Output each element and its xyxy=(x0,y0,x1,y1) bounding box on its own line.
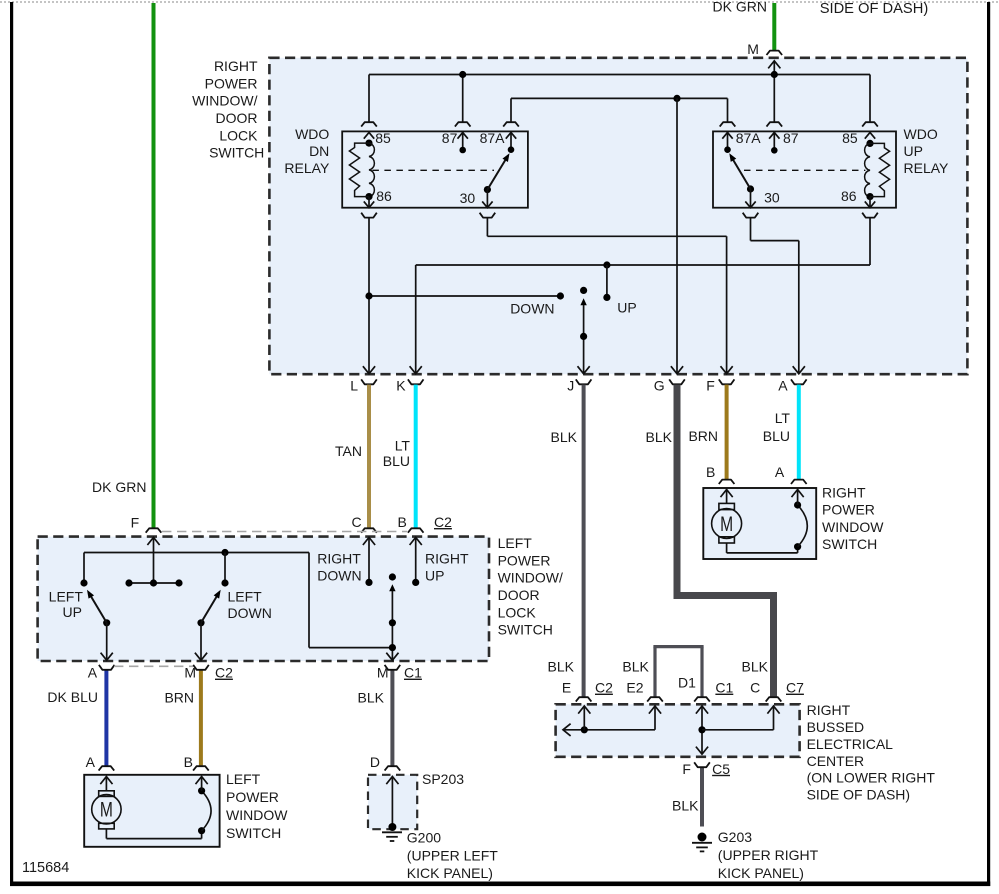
svg-text:SIDE OF DASH): SIDE OF DASH) xyxy=(820,1,929,17)
svg-text:C2: C2 xyxy=(215,665,233,681)
svg-text:RELAY: RELAY xyxy=(284,160,330,176)
svg-text:POWER: POWER xyxy=(822,502,875,518)
svg-text:DOWN: DOWN xyxy=(317,567,361,583)
svg-text:E: E xyxy=(562,680,571,696)
svg-text:30: 30 xyxy=(764,190,780,206)
svg-text:BLU: BLU xyxy=(763,428,790,444)
svg-text:DOOR: DOOR xyxy=(498,587,540,603)
svg-text:DK BLU: DK BLU xyxy=(47,689,98,705)
svg-text:J: J xyxy=(567,378,574,394)
svg-text:SIDE OF DASH): SIDE OF DASH) xyxy=(807,786,910,802)
svg-text:B: B xyxy=(398,514,407,530)
svg-text:WINDOW: WINDOW xyxy=(822,519,884,535)
svg-text:(ON LOWER RIGHT: (ON LOWER RIGHT xyxy=(807,770,936,786)
svg-text:87: 87 xyxy=(442,130,458,146)
svg-text:RIGHT: RIGHT xyxy=(807,702,851,718)
svg-text:LEFT: LEFT xyxy=(498,535,533,551)
svg-text:BLK: BLK xyxy=(646,429,673,445)
svg-text:A: A xyxy=(88,665,98,681)
svg-text:M: M xyxy=(377,665,389,681)
svg-text:C: C xyxy=(750,680,760,696)
svg-text:KICK PANEL): KICK PANEL) xyxy=(718,865,804,881)
svg-text:A: A xyxy=(775,464,785,480)
svg-text:DK GRN: DK GRN xyxy=(92,479,146,495)
svg-text:RIGHT: RIGHT xyxy=(425,551,469,567)
svg-text:WINDOW/: WINDOW/ xyxy=(498,570,563,586)
svg-text:BLK: BLK xyxy=(622,659,649,675)
svg-text:85: 85 xyxy=(842,130,858,146)
svg-text:BRN: BRN xyxy=(688,428,718,444)
svg-text:RIGHT: RIGHT xyxy=(822,484,866,500)
svg-text:RELAY: RELAY xyxy=(904,160,950,176)
svg-text:G203: G203 xyxy=(718,829,752,845)
svg-text:BLK: BLK xyxy=(672,797,699,813)
svg-text:POWER: POWER xyxy=(498,552,551,568)
svg-text:DOOR: DOOR xyxy=(216,110,258,126)
svg-text:87A: 87A xyxy=(480,130,506,146)
svg-text:F: F xyxy=(131,515,140,531)
svg-text:BLK: BLK xyxy=(551,429,578,445)
svg-text:LOCK: LOCK xyxy=(219,127,258,143)
svg-text:WINDOW/: WINDOW/ xyxy=(192,93,257,109)
svg-text:M: M xyxy=(747,41,759,57)
svg-text:LOCK: LOCK xyxy=(498,604,537,620)
svg-text:WDO: WDO xyxy=(904,126,938,142)
svg-text:(UPPER RIGHT: (UPPER RIGHT xyxy=(718,847,819,863)
svg-text:87A: 87A xyxy=(736,130,762,146)
svg-text:G: G xyxy=(654,378,665,394)
svg-text:ELECTRICAL: ELECTRICAL xyxy=(807,736,894,752)
svg-text:C: C xyxy=(352,514,362,530)
svg-text:M: M xyxy=(184,665,196,681)
svg-text:D: D xyxy=(370,754,380,770)
svg-text:LEFT: LEFT xyxy=(226,771,261,787)
svg-text:C5: C5 xyxy=(712,761,730,777)
svg-text:B: B xyxy=(706,464,715,480)
svg-text:K: K xyxy=(396,378,406,394)
svg-text:LT: LT xyxy=(775,410,791,426)
svg-text:POWER: POWER xyxy=(226,789,279,805)
svg-text:BLU: BLU xyxy=(383,453,410,469)
svg-text:POWER: POWER xyxy=(205,75,258,91)
svg-text:DN: DN xyxy=(309,143,329,159)
svg-text:86: 86 xyxy=(841,188,857,204)
svg-text:SWITCH: SWITCH xyxy=(498,622,553,638)
svg-text:115684: 115684 xyxy=(22,860,69,876)
svg-text:DK GRN: DK GRN xyxy=(713,0,767,15)
svg-text:86: 86 xyxy=(376,188,392,204)
svg-text:(UPPER LEFT: (UPPER LEFT xyxy=(407,848,498,864)
svg-text:UP: UP xyxy=(904,143,923,159)
svg-text:L: L xyxy=(350,378,358,394)
svg-text:A: A xyxy=(778,378,788,394)
svg-text:BRN: BRN xyxy=(164,690,194,706)
svg-text:SWITCH: SWITCH xyxy=(209,145,264,161)
svg-text:DOWN: DOWN xyxy=(228,605,272,621)
svg-text:87: 87 xyxy=(783,130,799,146)
svg-text:DOWN: DOWN xyxy=(510,301,554,317)
svg-text:RIGHT: RIGHT xyxy=(317,551,361,567)
svg-text:LT: LT xyxy=(395,438,411,454)
svg-text:WDO: WDO xyxy=(295,126,329,142)
svg-text:C1: C1 xyxy=(715,680,733,696)
svg-text:UP: UP xyxy=(425,567,444,583)
svg-text:D1: D1 xyxy=(678,675,696,691)
svg-text:85: 85 xyxy=(375,130,391,146)
svg-text:WINDOW: WINDOW xyxy=(226,807,288,823)
svg-text:F: F xyxy=(682,761,691,777)
svg-text:M: M xyxy=(100,799,113,822)
svg-text:RIGHT: RIGHT xyxy=(214,58,258,74)
svg-text:KICK PANEL): KICK PANEL) xyxy=(407,865,493,881)
svg-text:SP203: SP203 xyxy=(422,771,464,787)
svg-text:C2: C2 xyxy=(434,514,452,530)
svg-text:SWITCH: SWITCH xyxy=(226,825,281,841)
svg-text:BLK: BLK xyxy=(742,659,769,675)
svg-text:BUSSED: BUSSED xyxy=(807,719,865,735)
svg-text:TAN: TAN xyxy=(335,443,362,459)
svg-text:E2: E2 xyxy=(626,680,643,696)
svg-text:M: M xyxy=(720,513,733,536)
svg-text:LEFT: LEFT xyxy=(228,588,263,604)
svg-text:CENTER: CENTER xyxy=(807,753,865,769)
svg-text:B: B xyxy=(184,754,193,770)
svg-text:C7: C7 xyxy=(786,680,804,696)
svg-text:G200: G200 xyxy=(407,830,441,846)
svg-text:30: 30 xyxy=(460,190,476,206)
svg-text:A: A xyxy=(86,754,96,770)
svg-text:C2: C2 xyxy=(595,680,613,696)
svg-text:C1: C1 xyxy=(404,665,422,681)
svg-text:SWITCH: SWITCH xyxy=(822,536,877,552)
svg-text:BLK: BLK xyxy=(358,690,385,706)
svg-text:UP: UP xyxy=(617,300,636,316)
svg-text:BLK: BLK xyxy=(548,659,575,675)
svg-text:UP: UP xyxy=(63,604,82,620)
svg-text:LEFT: LEFT xyxy=(49,588,84,604)
svg-text:F: F xyxy=(706,378,715,394)
